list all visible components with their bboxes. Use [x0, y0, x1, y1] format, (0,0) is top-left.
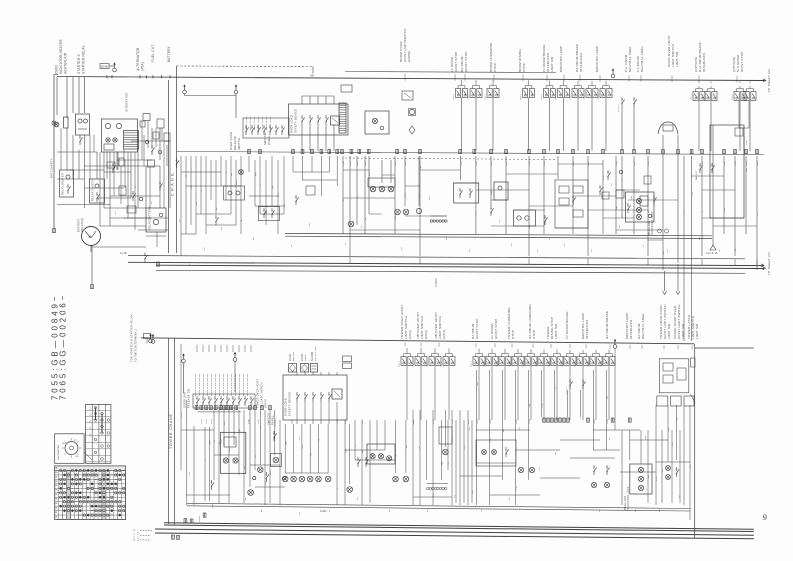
bus line t5 [156, 265, 764, 268]
connector stack [343, 356, 352, 362]
svg-text:GYB: GYB [757, 161, 759, 166]
wire mesh verticals top block [342, 156, 344, 234]
svg-text:ES8.2 TW: ES8.2 TW [134, 528, 136, 541]
wire connector row line [177, 152, 764, 155]
lamp single c [347, 487, 353, 493]
svg-text:(WT-9): (WT-9) [265, 399, 268, 408]
svg-text:DN8: DN8 [101, 65, 108, 69]
svg-text:5N5-1: 5N5-1 [584, 93, 586, 100]
contact K10 group [357, 464, 359, 467]
svg-text:WL: WL [55, 494, 58, 496]
svg-text:BR+B HOOK RELIEF: BR+B HOOK RELIEF [247, 373, 249, 396]
svg-text:BR+B HOOK RELIEF: BR+B HOOK RELIEF [219, 373, 221, 396]
svg-text:LIMIT SW: LIMIT SW [667, 324, 671, 339]
svg-text:GYB: GYB [702, 161, 704, 166]
bus line t2 [285, 236, 712, 238]
svg-text:BR+B HOOK RELIEF: BR+B HOOK RELIEF [203, 373, 205, 396]
limit switch [523, 89, 528, 98]
svg-text:5N5-1: 5N5-1 [541, 93, 543, 100]
svg-text:TO SHEET 2/3: TO SHEET 2/3 [767, 69, 771, 92]
wireless indicator lamp bottom [630, 464, 652, 494]
svg-text:GYR: GYR [490, 438, 492, 443]
bus line t6 [156, 270, 745, 273]
small circ b1 [253, 477, 256, 480]
svg-text:STARTER RELAY: STARTER RELAY [82, 44, 86, 74]
svg-text:RA DRUM BRAKE: RA DRUM BRAKE [605, 311, 609, 339]
svg-text:GYB: GYB [594, 419, 596, 424]
wire dashed aux row [345, 158, 556, 160]
flag on main feed [611, 74, 615, 78]
svg-text:GYB: GYB [405, 161, 407, 166]
svg-text:STOP: STOP [493, 63, 497, 72]
svg-text:YG: YG [684, 212, 686, 215]
svg-text:GYR: GYR [265, 481, 267, 486]
svg-text:WL: WL [55, 499, 58, 501]
pilot lamp trio [368, 178, 395, 187]
svg-text:PA+1-C: PA+1-C [695, 171, 698, 180]
svg-text:YG: YG [622, 179, 624, 182]
svg-text:WL: WL [55, 476, 58, 478]
svg-text:5N5-1: 5N5-1 [549, 360, 551, 367]
limit switch [572, 89, 577, 98]
limit switch [744, 92, 749, 101]
svg-text:(HO2): (HO2) [408, 330, 412, 339]
svg-text:STOP: STOP [511, 330, 515, 339]
header label leader ticks bottom [404, 342, 406, 346]
diode d [151, 152, 153, 155]
svg-text:BATTERY: BATTERY [167, 45, 171, 62]
bus bottom connectors [184, 519, 187, 523]
svg-text:YG: YG [205, 459, 207, 462]
limit switch [564, 357, 569, 366]
svg-text:OVERLOAD: OVERLOAD [183, 392, 187, 408]
svg-text:YG: YG [357, 195, 359, 198]
svg-text:YG: YG [702, 210, 704, 213]
lamp b1 [248, 490, 254, 496]
svg-text:BR+B HOOK RELIEF: BR+B HOOK RELIEF [243, 373, 245, 396]
svg-text:GYB: GYB [542, 403, 544, 408]
left-mid horizontals [181, 171, 221, 173]
svg-text:STOP: STOP [532, 330, 536, 339]
lamp pair f [518, 467, 523, 472]
svg-text:OFF: OFF [62, 443, 67, 445]
flag starter link [144, 334, 151, 339]
limit switch [473, 357, 478, 366]
svg-text:GYB: GYB [607, 419, 609, 424]
svg-text:TOWER CRANE: TOWER CRANE [169, 413, 173, 449]
svg-text:WL: WL [55, 490, 58, 492]
wire top feed left [57, 76, 177, 79]
limit switch [600, 89, 605, 98]
svg-text:GYB: GYB [506, 161, 508, 166]
svg-text:(HO5E): (HO5E) [407, 50, 411, 62]
svg-text:5N5-1: 5N5-1 [555, 93, 557, 100]
svg-text:GYB: GYB [616, 161, 618, 166]
svg-text:5N5-1: 5N5-1 [413, 360, 415, 367]
wire bottom inner horizontals [198, 411, 241, 413]
svg-text:WL: WL [55, 512, 58, 514]
svg-text:YG: YG [476, 212, 478, 215]
horn component [658, 122, 678, 134]
svg-text:RELEASE SWITCH: RELEASE SWITCH [261, 382, 264, 408]
circuit breaker symbol [52, 121, 56, 125]
limit switch [486, 357, 491, 366]
svg-text:INTERLOCK: INTERLOCK [585, 320, 589, 339]
svg-text:5N5-1: 5N5-1 [471, 360, 473, 367]
svg-text:7 0 6 5 : G G — 0 0 2 0 6 ~: 7 0 6 5 : G G — 0 0 2 0 6 ~ [59, 295, 68, 400]
relay safety [90, 179, 105, 203]
svg-text:HOIST STOP: HOIST STOP [464, 51, 468, 72]
alarm detector [311, 364, 318, 373]
tower hook cluster [659, 359, 689, 393]
svg-text:5N5-1: 5N5-1 [598, 93, 600, 100]
lamp pair g [666, 466, 671, 471]
svg-text:GYB: GYB [634, 161, 636, 166]
connector row bottom left [195, 406, 198, 410]
circled numbers [658, 229, 662, 233]
flag bottom b [233, 358, 237, 362]
svg-text:SWITCH: SWITCH [263, 133, 267, 145]
svg-text:FOR STARTER & STARTER RELAY: FOR STARTER & STARTER RELAY [131, 315, 134, 362]
svg-text:INDICATOR LAMP: INDICATOR LAMP [651, 211, 654, 235]
svg-text:GYB: GYB [350, 161, 352, 166]
svg-text:BR+B HOOK RELIEF: BR+B HOOK RELIEF [195, 373, 197, 396]
svg-text:PANEL,: PANEL, [271, 414, 275, 425]
wire bus stubs top block [349, 257, 351, 263]
bus bottom b4 [155, 533, 754, 539]
svg-text:SAFETY DEVICE: SAFETY DEVICE [294, 109, 298, 133]
limit switch [558, 89, 563, 98]
svg-text:GYB: GYB [529, 161, 531, 166]
svg-text:GYB: GYB [490, 419, 492, 424]
limit switch [693, 92, 698, 101]
svg-text:CB03: CB03 [55, 65, 59, 74]
svg-text:GYB: GYB [724, 161, 726, 166]
relay trio box [367, 444, 395, 464]
svg-text:GYB: GYB [337, 419, 339, 424]
svg-text:ON: ON [75, 456, 79, 458]
svg-text:LIMIT SW: LIMIT SW [675, 52, 679, 67]
svg-text:GYB: GYB [433, 419, 435, 424]
svg-text:5N5-1: 5N5-1 [468, 93, 470, 100]
wire left branch CB03 [53, 75, 55, 230]
connector symbols row [248, 150, 251, 154]
svg-text:OVER LOAD: OVER LOAD [284, 398, 288, 416]
relay box mesh a [454, 183, 479, 203]
color table marks [59, 469, 61, 471]
svg-text:BR+B HOOK RELIEF: BR+B HOOK RELIEF [207, 373, 209, 396]
engine cluster extra small parts [140, 121, 145, 127]
limit switch [499, 357, 504, 366]
bus line t3 [128, 256, 745, 259]
limit switch [586, 89, 591, 98]
wire mesh verticals left-mid [180, 156, 182, 256]
over load safety device box top [289, 104, 349, 135]
contact K1B [211, 487, 213, 490]
safety device contacts top [301, 122, 303, 125]
svg-text:BR+B HOOK RELIEF: BR+B HOOK RELIEF [231, 373, 233, 396]
svg-text:GYB: GYB [529, 419, 531, 424]
bus bottom b2 [164, 525, 754, 532]
big option box right [710, 125, 744, 218]
color table filled columns [67, 471, 71, 520]
lamp e [443, 449, 449, 455]
limit switch [443, 357, 448, 366]
svg-text:MONITOR LAMP: MONITOR LAMP [595, 46, 599, 72]
svg-text:LOAD: LOAD [301, 354, 304, 361]
wire drops from feed to engine cluster [56, 77, 58, 115]
svg-text:5N5-1: 5N5-1 [570, 93, 572, 100]
contact R1B [273, 438, 275, 441]
svg-text:R1B: R1B [645, 435, 647, 440]
svg-text:U8: U8 [310, 74, 314, 78]
svg-text:BR+B HOOK RELIEF: BR+B HOOK RELIEF [239, 373, 241, 396]
svg-text:5N5-1: 5N5-1 [497, 360, 499, 367]
svg-text:ALARM: ALARM [311, 352, 314, 361]
svg-text:GYR: GYR [656, 476, 658, 481]
device leads bottom [296, 402, 298, 424]
svg-text:M: M [89, 235, 92, 239]
divider tower crane [168, 338, 170, 524]
inner relay box K17 [221, 432, 246, 473]
svg-text:GYB: GYB [516, 419, 518, 424]
svg-text:MONITOR LAMP: MONITOR LAMP [559, 46, 563, 72]
svg-text:HOIST STOP: HOIST STOP [494, 318, 498, 339]
svg-text:PANEL,: PANEL, [267, 134, 271, 145]
lamp row bottom [282, 476, 288, 482]
limit switch [538, 357, 543, 366]
lamp pair lower [395, 209, 401, 215]
svg-text:YG: YG [555, 386, 557, 389]
switch position mini table [86, 404, 111, 463]
svg-text:WL: WL [55, 508, 58, 510]
alternator assembly [102, 119, 138, 152]
svg-text:5N5-1: 5N5-1 [427, 360, 429, 367]
lamp single [348, 221, 354, 227]
svg-text:NEUTRAL FREE: NEUTRAL FREE [628, 46, 632, 72]
svg-text:GYB: GYB [746, 161, 748, 166]
limit switch [525, 357, 530, 366]
contact col [544, 222, 546, 225]
wire engine mesh verticals [66, 128, 68, 170]
safety device leads [301, 125, 303, 151]
limit switch [401, 357, 406, 366]
small comp right edge [691, 358, 696, 367]
svg-text:YG: YG [226, 171, 228, 174]
wire bottom block top line [141, 338, 694, 344]
svg-text:INTERLOCK: INTERLOCK [579, 53, 583, 72]
diamond sym [409, 126, 415, 134]
svg-text:SW,STARTER: SW,STARTER [57, 444, 60, 460]
component small a [143, 114, 150, 121]
svg-text:5N5-1: 5N5-1 [453, 93, 455, 100]
limit switch [705, 92, 710, 101]
svg-text:GYB: GYB [258, 419, 260, 424]
load meter [289, 364, 297, 373]
relay box mesh b [494, 182, 508, 200]
svg-text:RELAY,HEATER: RELAY,HEATER [61, 173, 65, 195]
svg-text:GYB: GYB [196, 201, 198, 206]
svg-text:GYB: GYB [275, 419, 277, 424]
svg-text:(45A): (45A) [141, 62, 145, 71]
relay pair right [513, 210, 535, 226]
svg-text:RELEASE: RELEASE [233, 136, 237, 150]
limit switch [470, 89, 475, 98]
component small e [148, 160, 155, 167]
svg-text:5N5-1: 5N5-1 [742, 93, 744, 100]
svg-text:YG: YG [355, 444, 357, 447]
svg-text:ALTERNATOR: ALTERNATOR [125, 92, 129, 112]
svg-text:DETECTOR: DETECTOR [315, 346, 317, 361]
wire flag link [185, 95, 237, 97]
limit switch [590, 357, 595, 366]
starter relay contacts [79, 142, 81, 145]
svg-text:YG: YG [337, 487, 339, 490]
svg-text:LOAD: LOAD [289, 354, 292, 361]
svg-text:5N5-1: 5N5-1 [732, 93, 734, 100]
svg-text:YG: YG [319, 438, 321, 441]
svg-text:WL: WL [55, 472, 58, 474]
safety device aux box [331, 116, 340, 125]
release row contacts [245, 132, 247, 135]
svg-text:S+B2: S+B2 [199, 515, 201, 522]
release contacts bottom [193, 394, 255, 408]
small circ b2 [283, 477, 286, 480]
svg-text:YG: YG [448, 461, 450, 464]
limit switch [456, 89, 461, 98]
limit switch [577, 357, 582, 366]
limit switch [512, 357, 517, 366]
svg-text:RELEASE SW: RELEASE SW [187, 388, 191, 408]
svg-text:GYB: GYB [477, 419, 479, 424]
svg-text:SAFETY DEVICE: SAFETY DEVICE [288, 392, 292, 416]
svg-text:WL: WL [55, 467, 58, 469]
mid cluster relays [476, 440, 516, 466]
svg-text:GYR: GYR [672, 442, 674, 447]
wire release row stubs to top line [196, 345, 198, 352]
sensor circle b [416, 208, 421, 213]
limit switch [734, 92, 739, 101]
component small b [157, 119, 164, 128]
svg-text:WL: WL [55, 485, 58, 487]
svg-text:GYB: GYB [248, 419, 250, 424]
bus inner bottom pair [187, 503, 690, 508]
svg-text:TOWER OVER HOIST: TOWER OVER HOIST [257, 378, 260, 408]
color table header band [55, 466, 126, 471]
mesh horizontals top block [343, 169, 369, 171]
svg-text:GYB: GYB [365, 161, 367, 166]
hoist contacts bottom [569, 386, 571, 389]
svg-text:OVER LOAD: OVER LOAD [290, 115, 294, 133]
svg-text:NEUTRAL FREE: NEUTRAL FREE [640, 46, 644, 72]
svg-text:GYB: GYB [357, 161, 359, 166]
wire battery dashed link [177, 65, 314, 68]
svg-text:HOIST STOP: HOIST STOP [740, 51, 744, 72]
svg-text:5N5-1: 5N5-1 [441, 360, 443, 367]
svg-text:WL: WL [55, 516, 58, 518]
svg-text:YG: YG [419, 194, 421, 197]
svg-text:5N5-1: 5N5-1 [601, 360, 603, 367]
header label leader ticks top [404, 74, 406, 81]
contact k5 [490, 213, 492, 216]
svg-text:5N5-1: 5N5-1 [691, 93, 693, 100]
svg-text:GYB: GYB [735, 161, 737, 166]
flag DN8 [100, 64, 109, 69]
svg-text:ES8.GPT: ES8.GPT [138, 529, 140, 541]
wire bottom mesh verticals [180, 344, 182, 470]
relay battery [146, 208, 166, 232]
svg-text:STOP: STOP [522, 63, 526, 72]
svg-text:YG: YG [260, 426, 262, 429]
connector row bottom mid [543, 418, 546, 422]
svg-text:INDICATOR,HEATER: INDICATOR,HEATER [59, 39, 63, 74]
wire engine mesh horizontals [57, 151, 97, 153]
svg-text:GYB: GYB [211, 419, 213, 424]
diode block [104, 144, 114, 150]
svg-text:GYB: GYB [573, 161, 575, 166]
svg-text:YG: YG [255, 455, 257, 458]
svg-text:SWITCH: SWITCH [237, 138, 241, 150]
svg-text:GYB: GYB [452, 419, 454, 424]
svg-text:GYB: GYB [201, 419, 203, 424]
component small c [164, 133, 170, 141]
svg-text:BR+B HOOK RELIEF: BR+B HOOK RELIEF [211, 373, 213, 396]
relay cluster mid [365, 111, 389, 134]
ignition switch diagram [55, 434, 84, 464]
wire bottom block right edge [694, 344, 696, 538]
svg-text:LIMIT SW: LIMIT SW [554, 324, 558, 339]
over load safety device box bottom [283, 375, 347, 420]
wireless indicator lamp top [626, 192, 655, 222]
bus bottom b3 [155, 529, 754, 535]
svg-text:5N5-1: 5N5-1 [523, 360, 525, 367]
flag a2 [710, 245, 716, 250]
svg-text:WL: WL [55, 481, 58, 483]
svg-text:LIMIT SW: LIMIT SW [695, 324, 699, 339]
svg-text:S+B2: S+B2 [320, 510, 327, 513]
engine cluster extra verticals [60, 128, 62, 170]
lamp b2 [258, 467, 264, 473]
release switch row box [243, 118, 289, 138]
svg-text:(HO2): (HO2) [424, 330, 428, 339]
resistor heater [64, 117, 69, 128]
svg-text:YG: YG [201, 189, 203, 192]
svg-text:LIMIT SW: LIMIT SW [550, 57, 554, 72]
svg-text:GYB: GYB [648, 161, 650, 166]
svg-text:YG: YG [260, 184, 262, 187]
svg-text:INTERLOCK: INTERLOCK [702, 53, 706, 72]
relay cluster far right [555, 180, 588, 228]
svg-text:INTERLOCK: INTERLOCK [629, 320, 633, 339]
starter motor [82, 227, 101, 246]
lamp pair d [393, 476, 399, 482]
svg-text:LIMIT SW: LIMIT SW [681, 324, 685, 339]
wire limswitch stems [461, 80, 463, 83]
limit switch [487, 89, 492, 98]
svg-text:GYB: GYB [461, 161, 463, 166]
connector strip 6 [430, 220, 432, 222]
fuse 5A [119, 158, 124, 166]
contact R1 [265, 479, 267, 482]
limit switch [429, 357, 434, 366]
svg-text:INDICATOR LAMP: INDICATOR LAMP [627, 486, 630, 510]
svg-text:A+2 Z-16: A+2 Z-16 [706, 252, 718, 255]
flag feed a [183, 90, 187, 94]
fuse 13A [341, 85, 352, 92]
svg-text:GYB: GYB [452, 437, 454, 442]
svg-text:BATTERY: BATTERY [77, 219, 81, 232]
flag on bottom top line [151, 340, 155, 344]
